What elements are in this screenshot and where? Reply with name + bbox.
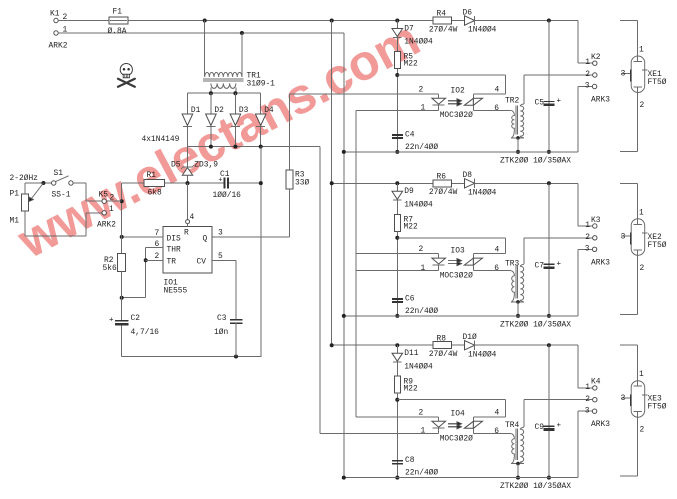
svg-text:+: + [557,98,562,106]
svg-text:2: 2 [419,85,424,94]
svg-text:2: 2 [585,70,590,79]
svg-text:1: 1 [421,104,426,113]
svg-text:4: 4 [495,86,500,95]
svg-text:2: 2 [585,395,590,404]
svg-text:3: 3 [621,70,626,79]
svg-text:3: 3 [585,406,590,415]
svg-text:+: + [557,260,562,268]
svg-text:D2: D2 [214,106,224,115]
svg-text:+: + [109,317,114,325]
svg-text:2: 2 [419,408,424,417]
svg-text:D11: D11 [404,349,418,358]
svg-text:1N4ØØ4: 1N4ØØ4 [468,26,497,35]
svg-text:5k6: 5k6 [103,264,117,273]
svg-text:1N4ØØ4: 1N4ØØ4 [404,362,433,371]
svg-text:D6: D6 [463,8,473,17]
svg-text:IO3: IO3 [451,246,465,255]
svg-text:ARK3: ARK3 [591,420,610,429]
svg-text:27Ø/4W: 27Ø/4W [429,188,458,197]
svg-text:CV: CV [197,258,207,267]
svg-text:3: 3 [218,229,223,238]
svg-text:1: 1 [109,205,114,214]
svg-text:5: 5 [218,252,223,261]
svg-text:1Øn: 1Øn [214,328,228,337]
svg-text:F1: F1 [113,8,123,17]
svg-text:R6: R6 [437,172,447,181]
svg-text:TR4: TR4 [505,421,519,430]
svg-text:ARK3: ARK3 [591,96,610,105]
svg-text:1: 1 [585,58,590,67]
svg-text:TR3: TR3 [505,259,519,268]
svg-text:C3: C3 [217,314,227,323]
svg-text:2-2ØHz: 2-2ØHz [10,174,39,183]
svg-text:FT5Ø: FT5Ø [648,241,667,250]
svg-text:3: 3 [621,394,626,403]
svg-text:C9: C9 [535,423,545,432]
svg-text:4: 4 [495,245,500,254]
svg-text:2: 2 [585,233,590,242]
svg-text:22n/4ØØ: 22n/4ØØ [405,143,438,152]
svg-text:R: R [184,229,189,238]
svg-text:Q: Q [203,235,208,244]
svg-text:22n/4ØØ: 22n/4ØØ [405,307,438,316]
svg-text:6k8: 6k8 [148,189,162,198]
svg-text:1: 1 [421,427,426,436]
svg-text:IO2: IO2 [451,87,465,96]
svg-text:D1: D1 [191,106,201,115]
svg-text:2: 2 [155,252,160,261]
svg-text:1: 1 [639,370,644,379]
svg-text:D4: D4 [264,106,274,115]
svg-text:THR: THR [167,246,181,255]
svg-text:K2: K2 [591,53,601,62]
svg-text:3: 3 [585,245,590,254]
svg-text:3: 3 [585,82,590,91]
svg-text:D8: D8 [463,171,473,180]
svg-text:K5: K5 [99,191,109,200]
svg-text:6: 6 [494,427,499,436]
svg-text:MOC3Ø2Ø: MOC3Ø2Ø [440,111,473,120]
svg-text:Ø.8A: Ø.8A [108,27,127,36]
svg-text:C2: C2 [131,314,141,323]
svg-text:M1: M1 [10,217,20,226]
svg-text:D1Ø: D1Ø [463,333,477,342]
svg-text:1N4ØØ4: 1N4ØØ4 [404,38,433,47]
svg-text:C6: C6 [405,294,415,303]
svg-text:1: 1 [639,46,644,55]
svg-text:C1: C1 [220,170,230,179]
svg-text:4: 4 [495,409,500,418]
svg-text:1: 1 [639,208,644,217]
svg-text:1N4ØØ4: 1N4ØØ4 [404,201,433,210]
svg-text:27Ø/4W: 27Ø/4W [429,350,458,359]
svg-text:1ØØ/16: 1ØØ/16 [213,191,242,200]
svg-text:6: 6 [494,264,499,273]
svg-text:ZTK2ØØ 1Ø/35ØAX: ZTK2ØØ 1Ø/35ØAX [500,482,571,491]
svg-text:1N4ØØ4: 1N4ØØ4 [468,350,497,359]
svg-text:DIS: DIS [167,235,181,244]
svg-text:M22: M22 [404,60,418,69]
svg-text:6: 6 [494,104,499,113]
svg-text:2: 2 [640,101,645,110]
svg-text:R8: R8 [437,334,447,343]
svg-text:D7: D7 [404,24,414,33]
svg-text:P1: P1 [10,190,20,199]
svg-text:D5: D5 [171,161,181,170]
svg-text:FT5Ø: FT5Ø [648,403,667,412]
svg-text:IO4: IO4 [451,410,465,419]
svg-text:D9: D9 [404,187,414,196]
svg-text:1: 1 [585,383,590,392]
svg-text:K1: K1 [50,10,60,19]
svg-text:C7: C7 [535,261,545,270]
svg-text:ARK2: ARK2 [97,221,116,230]
svg-text:FT5Ø: FT5Ø [648,78,667,87]
svg-text:22n/4ØØ: 22n/4ØØ [405,469,438,478]
svg-text:D3: D3 [239,106,249,115]
svg-text:+: + [557,422,562,430]
svg-text:1: 1 [421,264,426,273]
svg-text:M22: M22 [404,384,418,393]
svg-text:C5: C5 [535,99,545,108]
svg-text:ZD3,9: ZD3,9 [194,161,218,170]
svg-text:27Ø/4W: 27Ø/4W [429,25,458,34]
svg-text:ZTK2ØØ 1Ø/35ØAX: ZTK2ØØ 1Ø/35ØAX [500,156,571,165]
svg-text:ZTK2ØØ 1Ø/35ØAX: ZTK2ØØ 1Ø/35ØAX [500,320,571,329]
svg-text:1N4ØØ4: 1N4ØØ4 [468,189,497,198]
svg-text:2: 2 [419,245,424,254]
svg-text:NE555: NE555 [164,287,188,296]
svg-text:6: 6 [155,240,160,249]
svg-text:4: 4 [190,213,195,222]
svg-text:1: 1 [585,221,590,230]
svg-text:4,7/16: 4,7/16 [131,328,160,337]
svg-text:C4: C4 [405,130,415,139]
svg-text:K3: K3 [591,216,601,225]
svg-text:R1: R1 [147,171,157,180]
svg-text:3: 3 [621,232,626,241]
svg-text:2: 2 [640,264,645,273]
svg-text:31Ø9-1: 31Ø9-1 [247,80,276,89]
svg-text:33Ø: 33Ø [295,179,309,188]
svg-text:ARK3: ARK3 [591,258,610,267]
svg-text:C8: C8 [405,456,415,465]
svg-text:TR: TR [167,258,177,267]
svg-text:4x1N4149: 4x1N4149 [142,135,180,144]
svg-text:S1: S1 [54,169,64,178]
svg-text:M22: M22 [404,223,418,232]
svg-text:MOC3Ø2Ø: MOC3Ø2Ø [440,434,473,443]
svg-text:R4: R4 [437,10,447,19]
svg-text:MOC3Ø2Ø: MOC3Ø2Ø [440,272,473,281]
svg-text:K4: K4 [591,378,601,387]
svg-text:2: 2 [640,426,645,435]
svg-text:TR2: TR2 [505,97,519,106]
svg-text:7: 7 [155,229,160,238]
svg-text:SS-1: SS-1 [52,191,71,200]
svg-text:ARK2: ARK2 [49,42,68,51]
